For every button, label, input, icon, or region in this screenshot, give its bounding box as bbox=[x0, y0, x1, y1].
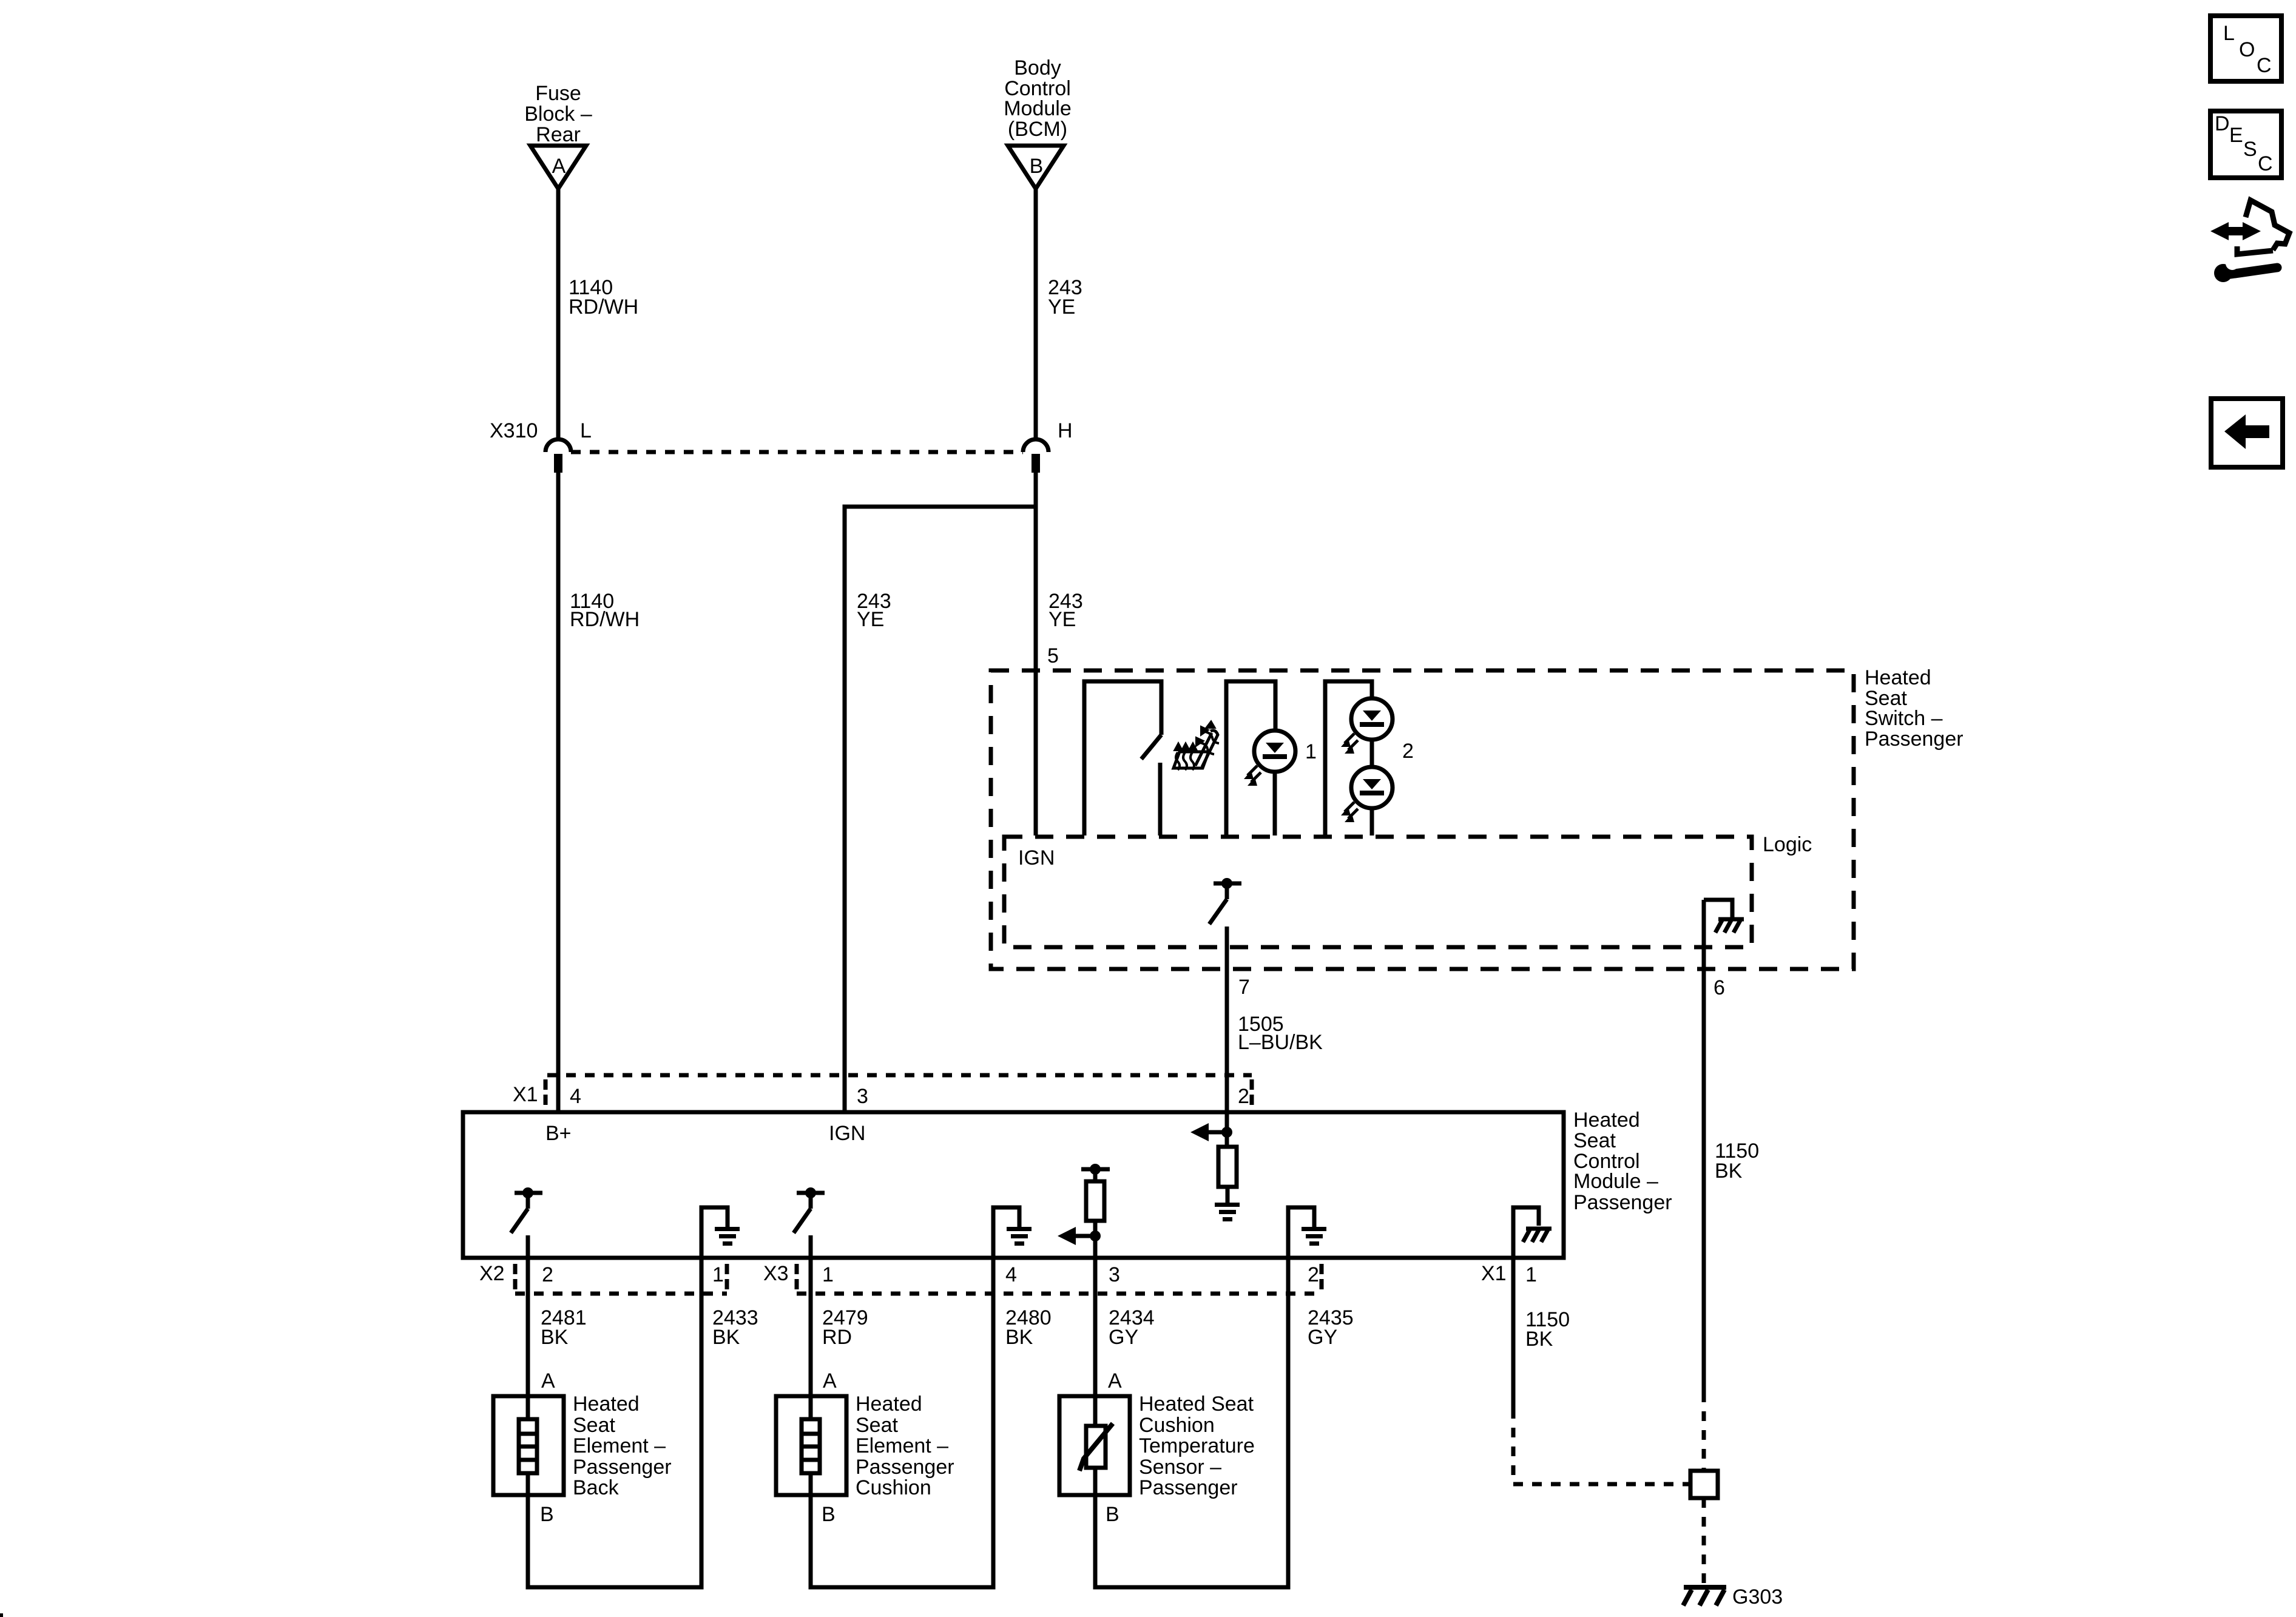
heated seat switch outer dashed box bbox=[991, 670, 1854, 969]
connector X310 dashed body line bbox=[571, 450, 1023, 454]
switch contact frame (mode switch) bbox=[1084, 681, 1161, 836]
wire label 2481 BK bbox=[541, 1306, 587, 1349]
wire loop sensor B to pin X3-2 bbox=[1095, 1258, 1288, 1587]
wire 2479 RD from pin X3-1 to element A bbox=[809, 1258, 813, 1396]
LED1 indicator bbox=[1244, 731, 1295, 836]
module output switch Q1 (seat back) bbox=[511, 1187, 542, 1258]
svg-text:BK: BK bbox=[1525, 1328, 1553, 1351]
svg-text:Temperature: Temperature bbox=[1139, 1434, 1255, 1457]
wire label 2433 BK bbox=[712, 1306, 758, 1349]
label Body Control Module (BCM) bbox=[1004, 56, 1072, 141]
svg-text:C: C bbox=[2258, 152, 2273, 175]
svg-text:BK: BK bbox=[1715, 1160, 1743, 1183]
wire loop element cushion B to pin X3-4 bbox=[811, 1258, 993, 1587]
svg-text:4: 4 bbox=[570, 1085, 581, 1108]
power symbol triangle B (Body Control Module BCM) bbox=[1008, 146, 1064, 189]
wire 243 YE continuing to switch pin 5 bbox=[1034, 507, 1038, 836]
label Heated Seat Element - Passenger Back bbox=[573, 1393, 672, 1499]
svg-text:1: 1 bbox=[1305, 740, 1317, 763]
heated seat element back box bbox=[493, 1396, 564, 1495]
wire label 2435 GY bbox=[1308, 1306, 1354, 1349]
svg-text:H: H bbox=[1058, 419, 1073, 442]
wire label 1150 BK (switch ground) bbox=[1715, 1139, 1759, 1183]
svg-text:7: 7 bbox=[1238, 976, 1250, 999]
svg-text:Fuse: Fuse bbox=[535, 82, 581, 105]
svg-text:L: L bbox=[2223, 22, 2235, 45]
heated seat cushion temperature sensor box bbox=[1059, 1396, 1130, 1495]
module earth ground (pin2 network) bbox=[1215, 1203, 1240, 1221]
dashed wire splice to G303 bbox=[1702, 1498, 1706, 1585]
svg-text:Body: Body bbox=[1014, 56, 1061, 79]
back arrow box bbox=[2211, 399, 2283, 467]
heated seat element cushion box bbox=[776, 1396, 846, 1495]
svg-text:E: E bbox=[2229, 124, 2243, 147]
connector X310 male pin H bbox=[1032, 454, 1040, 473]
dashed ground wire from pin X1-1 to splice bbox=[1513, 1409, 1690, 1484]
svg-text:RD: RD bbox=[822, 1326, 852, 1349]
wire resistor to ground bbox=[1226, 1187, 1230, 1203]
LED2 frame bbox=[1325, 681, 1372, 836]
svg-text:O: O bbox=[2239, 38, 2255, 61]
svg-text:B: B bbox=[1030, 155, 1044, 178]
module X1 connector dashed line (top) bbox=[547, 1073, 1252, 1078]
svg-text:5: 5 bbox=[1047, 644, 1059, 667]
svg-text:2: 2 bbox=[1308, 1263, 1319, 1286]
wire sensor network to pin X3-3 bbox=[1093, 1221, 1098, 1258]
svg-text:Passenger: Passenger bbox=[1573, 1191, 1672, 1214]
svg-text:RD/WH: RD/WH bbox=[569, 295, 638, 319]
thermistor symbol RT bbox=[1079, 1396, 1113, 1495]
svg-text:RD/WH: RD/WH bbox=[570, 608, 640, 631]
svg-text:1: 1 bbox=[712, 1263, 724, 1286]
label Heated Seat Switch - Passenger bbox=[1865, 666, 1963, 751]
logic selector switch junction dot bbox=[1221, 878, 1232, 889]
heater element symbol (cushion) bbox=[802, 1396, 820, 1495]
svg-text:Seat: Seat bbox=[856, 1414, 898, 1437]
wire between LED2 indicators bbox=[1370, 740, 1374, 768]
svg-text:2: 2 bbox=[1402, 740, 1414, 763]
svg-text:L–BU/BK: L–BU/BK bbox=[1238, 1031, 1323, 1054]
module sensor lower junction dot bbox=[1090, 1230, 1101, 1241]
svg-text:Module –: Module – bbox=[1573, 1170, 1658, 1193]
dashed ground wire from switch pin 6 to splice bbox=[1702, 1393, 1706, 1471]
LOC navigation box bbox=[2210, 16, 2281, 81]
svg-text:B: B bbox=[1106, 1503, 1119, 1526]
svg-text:A: A bbox=[541, 1369, 555, 1393]
svg-text:(BCM): (BCM) bbox=[1008, 118, 1067, 141]
svg-text:3: 3 bbox=[857, 1085, 868, 1108]
heated seat icon bbox=[1173, 721, 1219, 770]
wire 2481 BK from pin X2-2 to element A bbox=[526, 1258, 530, 1396]
module pull-up resistor R1 bbox=[1218, 1147, 1237, 1187]
connector X310 male pin L bbox=[554, 454, 562, 473]
wire 243 YE from X310-H down to branch junction bbox=[1034, 473, 1038, 507]
module pin2 arrow (signal into logic) bbox=[1190, 1123, 1227, 1141]
wire label 2480 BK bbox=[1005, 1306, 1052, 1349]
label Fuse Block - Rear bbox=[524, 82, 592, 146]
svg-text:BK: BK bbox=[541, 1326, 569, 1349]
wire label 243 YE (branch to module) bbox=[857, 590, 891, 631]
switch logic inner dashed box bbox=[1004, 837, 1752, 947]
svg-text:3: 3 bbox=[1109, 1263, 1120, 1286]
svg-text:GY: GY bbox=[1109, 1326, 1138, 1349]
logic internal chassis ground wire bbox=[1704, 900, 1732, 1393]
svg-text:L: L bbox=[580, 419, 592, 442]
svg-text:Logic: Logic bbox=[1763, 833, 1812, 856]
module input wire from pin 2 to junction bbox=[1225, 1112, 1229, 1147]
svg-text:G303: G303 bbox=[1732, 1585, 1783, 1609]
svg-text:X310: X310 bbox=[490, 419, 538, 442]
svg-text:2: 2 bbox=[1238, 1085, 1249, 1108]
svg-text:Passenger: Passenger bbox=[856, 1456, 954, 1479]
wire 1140 RD/WH from A to connector X310-L bbox=[556, 189, 561, 439]
module earth ground (above pin X2-1) bbox=[701, 1207, 740, 1258]
module X1 connector left boundary dashes bbox=[544, 1079, 548, 1109]
module sensor arrow (signal into logic) bbox=[1058, 1227, 1095, 1245]
wire label 1505 L-BU/BK bbox=[1238, 1013, 1323, 1054]
label Heated Seat Element - Passenger Cushion bbox=[856, 1393, 954, 1499]
module X2 connector dashed line bbox=[515, 1292, 727, 1296]
logic selector switch stub and blade bbox=[1209, 883, 1227, 924]
wire label 243 YE (to switch) bbox=[1048, 590, 1083, 631]
ground G303 symbol bbox=[1683, 1587, 1726, 1605]
remove/install tool icon bbox=[2210, 200, 2289, 282]
heated seat control module box bbox=[463, 1112, 1564, 1258]
svg-text:Heated Seat: Heated Seat bbox=[1139, 1393, 1254, 1416]
X2 right boundary dashes bbox=[725, 1264, 729, 1290]
svg-text:Back: Back bbox=[573, 1476, 620, 1499]
svg-text:YE: YE bbox=[1048, 608, 1076, 631]
svg-text:Heated: Heated bbox=[573, 1393, 640, 1416]
X3 right boundary dashes bbox=[1320, 1264, 1324, 1290]
LED2 upper indicator bbox=[1341, 698, 1393, 754]
svg-text:C: C bbox=[2257, 54, 2272, 77]
LED2 lower indicator bbox=[1341, 767, 1393, 836]
svg-text:Cushion: Cushion bbox=[856, 1476, 931, 1499]
module chassis ground (above pin X1-1) bbox=[1513, 1207, 1551, 1258]
wire label 243 YE (upper) bbox=[1048, 276, 1082, 319]
svg-text:IGN: IGN bbox=[829, 1122, 865, 1145]
wire 2434 GY from pin X3-3 to sensor A bbox=[1093, 1258, 1098, 1396]
connector X310 female terminal H (arc) bbox=[1023, 439, 1048, 452]
svg-text:1: 1 bbox=[822, 1263, 834, 1286]
module output switch Q2 (seat cushion) bbox=[794, 1187, 825, 1258]
wire label 1150 BK (module ground) bbox=[1525, 1308, 1570, 1351]
wire 1140 RD/WH from X310-L down to module pin X1-4 bbox=[556, 473, 561, 1112]
svg-text:Block –: Block – bbox=[524, 103, 592, 126]
svg-text:6: 6 bbox=[1714, 976, 1725, 999]
module X1 connector right boundary dashes bbox=[1250, 1079, 1254, 1109]
svg-text:Seat: Seat bbox=[573, 1414, 615, 1437]
svg-text:Sensor –: Sensor – bbox=[1139, 1456, 1221, 1479]
wire label 2434 GY bbox=[1109, 1306, 1155, 1349]
X3 left boundary dashes bbox=[795, 1264, 799, 1290]
svg-text:YE: YE bbox=[1048, 295, 1075, 319]
label Heated Seat Cushion Temperature Sensor - Passenger bbox=[1139, 1393, 1255, 1499]
svg-text:A: A bbox=[823, 1369, 837, 1393]
wire label 2479 RD bbox=[822, 1306, 868, 1349]
switch lower terminal (mode switch) bbox=[1158, 763, 1163, 836]
svg-text:Seat: Seat bbox=[1573, 1129, 1616, 1152]
wire 1150 BK from pin X1-1 (solid part) bbox=[1511, 1258, 1516, 1409]
svg-text:BK: BK bbox=[1005, 1326, 1033, 1349]
connector X310 female terminal L (arc) bbox=[545, 439, 571, 452]
svg-text:YE: YE bbox=[857, 608, 884, 631]
wire loop element back B to pin X2-1 bbox=[528, 1258, 701, 1587]
module earth ground (above pin X3-4) bbox=[993, 1207, 1032, 1258]
svg-text:B: B bbox=[540, 1503, 554, 1526]
svg-text:Element –: Element – bbox=[856, 1434, 948, 1457]
X2 boundary dashes bbox=[513, 1264, 518, 1290]
module pin2 junction dot bbox=[1221, 1127, 1232, 1138]
svg-text:IGN: IGN bbox=[1018, 846, 1055, 869]
power symbol triangle A (Fuse Block - Rear feed) bbox=[530, 146, 586, 189]
module sensor network top bar bbox=[1081, 1167, 1110, 1172]
svg-text:4: 4 bbox=[1005, 1263, 1017, 1286]
svg-text:X1: X1 bbox=[1481, 1262, 1507, 1285]
svg-text:Passenger: Passenger bbox=[1865, 727, 1963, 751]
logic selector switch bar bbox=[1214, 882, 1241, 886]
svg-text:Passenger: Passenger bbox=[1139, 1476, 1238, 1499]
module X3 connector dashed line bbox=[797, 1292, 1322, 1296]
svg-text:BK: BK bbox=[712, 1326, 740, 1349]
svg-text:Heated: Heated bbox=[1865, 666, 1931, 689]
svg-text:X3: X3 bbox=[763, 1262, 789, 1285]
svg-text:X1: X1 bbox=[513, 1083, 538, 1106]
heater element symbol (back) bbox=[519, 1396, 537, 1495]
label Heated Seat Control Module - Passenger bbox=[1573, 1109, 1672, 1214]
svg-text:1: 1 bbox=[1525, 1263, 1537, 1286]
svg-text:A: A bbox=[552, 155, 566, 178]
module sensor divider resistor R2 bbox=[1086, 1172, 1104, 1221]
svg-text:Element –: Element – bbox=[573, 1434, 666, 1457]
svg-text:B: B bbox=[822, 1503, 836, 1526]
wire label 1140 RD/WH (upper) bbox=[569, 276, 638, 319]
svg-text:Cushion: Cushion bbox=[1139, 1414, 1215, 1437]
LED1 frame bbox=[1226, 681, 1275, 836]
svg-text:Switch –: Switch – bbox=[1865, 707, 1943, 730]
page corner mark bbox=[0, 1613, 3, 1617]
svg-text:GY: GY bbox=[1308, 1326, 1337, 1349]
svg-text:Passenger: Passenger bbox=[573, 1456, 672, 1479]
svg-text:A: A bbox=[1108, 1369, 1122, 1393]
ground splice block bbox=[1690, 1471, 1718, 1498]
svg-text:Module: Module bbox=[1004, 97, 1072, 120]
wire 243 YE from B to connector X310-H bbox=[1034, 189, 1038, 439]
module sensor network junction dot (top) bbox=[1090, 1164, 1101, 1175]
logic switch output wire to pin 7 bbox=[1225, 927, 1229, 1147]
wire label 1140 RD/WH (lower) bbox=[570, 590, 640, 631]
svg-text:S: S bbox=[2243, 138, 2257, 161]
svg-text:Heated: Heated bbox=[856, 1393, 922, 1416]
svg-text:Heated: Heated bbox=[1573, 1109, 1640, 1132]
svg-text:B+: B+ bbox=[545, 1122, 572, 1145]
svg-text:2: 2 bbox=[542, 1263, 553, 1286]
svg-text:X2: X2 bbox=[479, 1262, 505, 1285]
module earth ground (above pin X3-2) bbox=[1288, 1207, 1326, 1258]
switch blade (mode switch) bbox=[1141, 735, 1161, 759]
wire 243 YE branch to module pin X1-3 bbox=[845, 507, 1036, 1112]
svg-text:D: D bbox=[2215, 112, 2230, 135]
svg-text:Rear: Rear bbox=[536, 123, 581, 146]
logic internal chassis ground symbol bbox=[1715, 919, 1744, 933]
DESC navigation box bbox=[2210, 111, 2281, 178]
